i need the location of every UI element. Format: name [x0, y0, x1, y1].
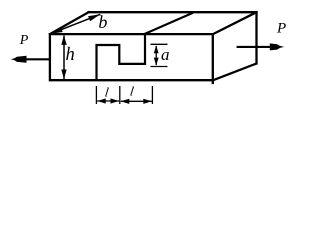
svg-text:P: P — [19, 33, 29, 48]
svg-text:P: P — [276, 21, 286, 37]
svg-text:b: b — [98, 12, 107, 32]
svg-text:h: h — [66, 45, 75, 65]
svg-text:a: a — [161, 45, 170, 64]
